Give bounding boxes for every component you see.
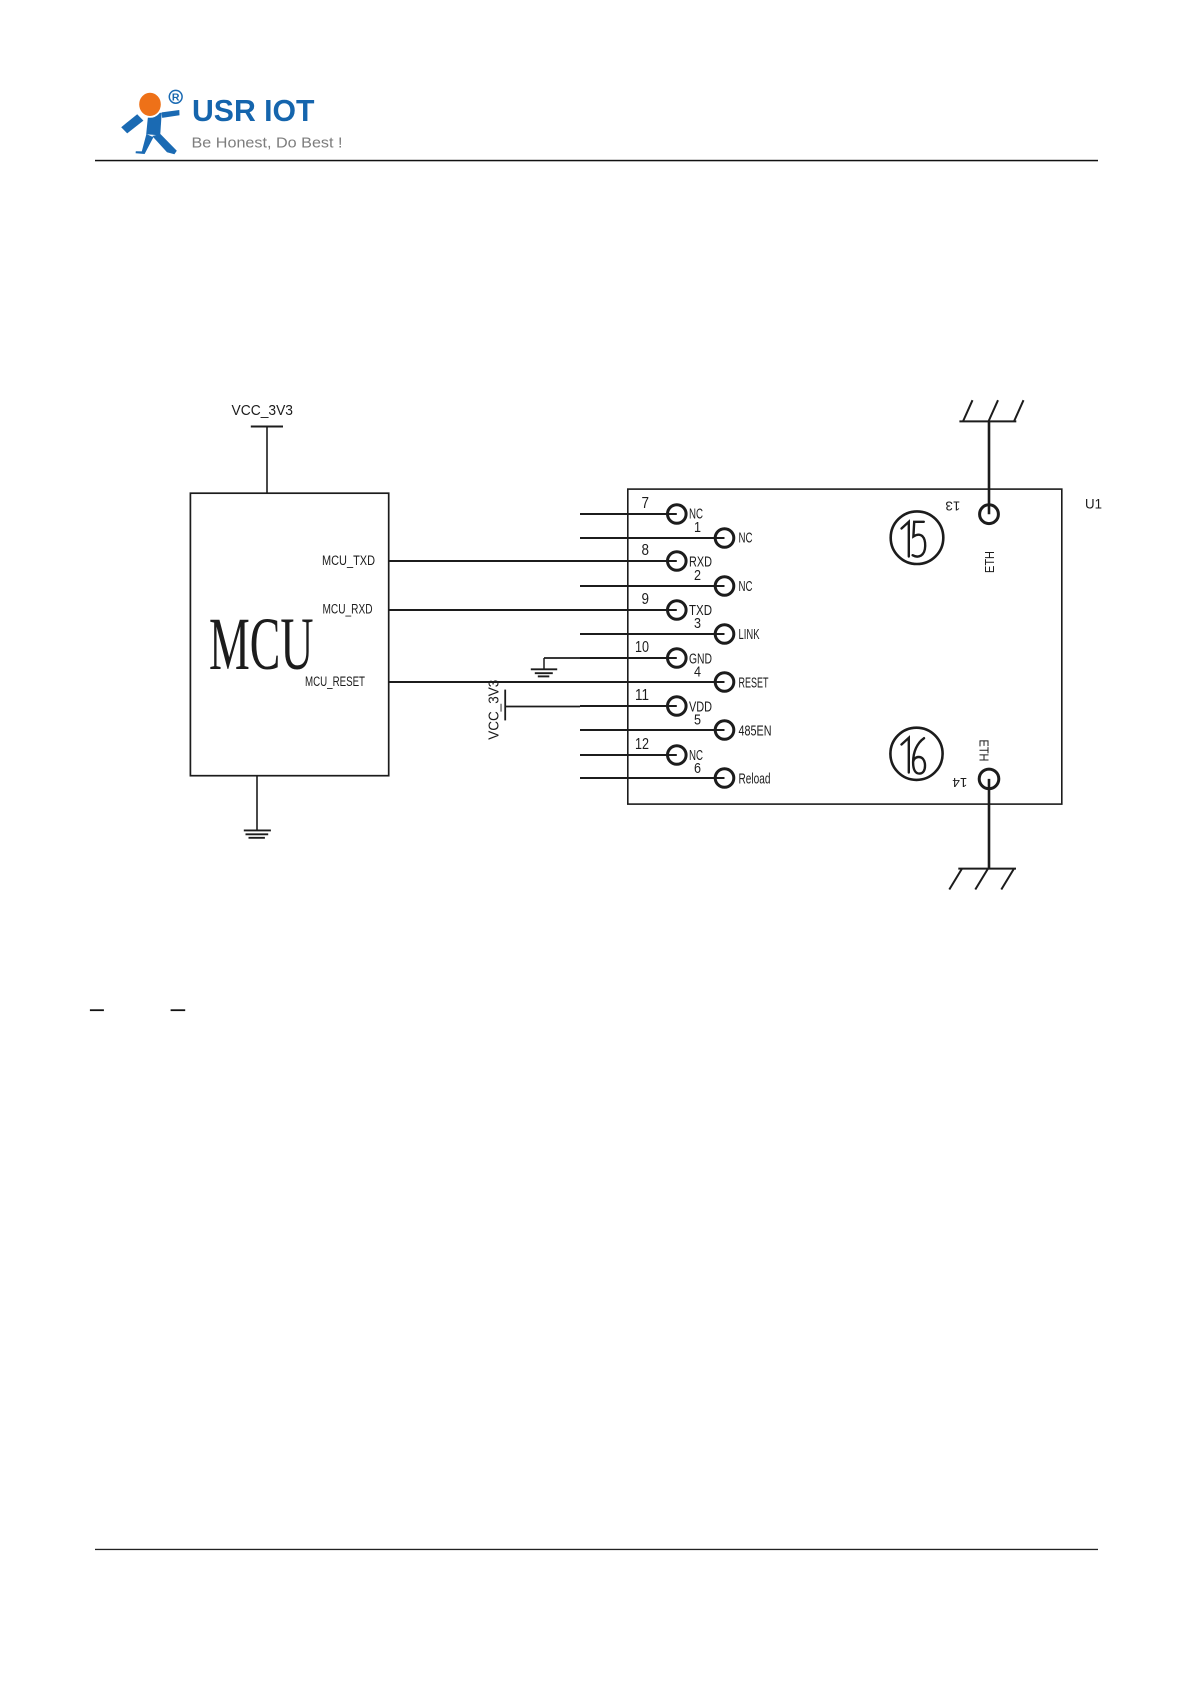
svg-text:TXD: TXD (689, 602, 712, 619)
label 16 (902, 738, 926, 774)
chassis ground bottom slash 1 (949, 869, 962, 890)
logo man left arm (121, 114, 143, 133)
svg-text:VCC_3V3: VCC_3V3 (232, 402, 294, 419)
wire MCU_RESET to U1 pin 4 (389, 681, 725, 683)
svg-text:13: 13 (945, 498, 960, 513)
logo man right leg (152, 134, 177, 154)
svg-text:11: 11 (635, 687, 649, 704)
dash mark left (90, 1009, 104, 1011)
power symbol VCC_3V3 (vertical, at VDD pin) (504, 690, 506, 721)
wire chassis ground to pin 13 (988, 421, 991, 514)
wire MCU_TXD to U1 pin 8 (389, 560, 677, 562)
wire VCC_3V3 to VDD pin (505, 706, 580, 708)
pin label MCU_RESET (305, 674, 365, 689)
chassis ground bottom bar (958, 868, 1016, 870)
header rule (95, 160, 1098, 162)
svg-text:MCU: MCU (209, 603, 314, 686)
svg-text:ETH: ETH (977, 740, 992, 762)
chassis ground bottom slash 2 (975, 869, 988, 890)
pin 14 circle (979, 769, 999, 789)
svg-text:ETH: ETH (982, 551, 997, 573)
svg-text:NC: NC (689, 506, 703, 523)
chassis ground bottom slash 3 (1001, 869, 1014, 890)
MCU label (209, 603, 314, 686)
wire VCC_3V3 to MCU (266, 427, 268, 494)
svg-text:RESET: RESET (739, 674, 769, 691)
pin 7 circle (668, 505, 687, 524)
svg-text:8: 8 (642, 542, 650, 559)
svg-text:NC: NC (689, 747, 703, 764)
svg-text:R: R (172, 92, 180, 104)
pin names (689, 506, 772, 788)
dash mark right (171, 1009, 186, 1011)
svg-text:485EN: 485EN (739, 723, 772, 740)
pin 10 circle (668, 649, 687, 668)
svg-text:Be Honest, Do Best !: Be Honest, Do Best ! (192, 136, 343, 152)
svg-text:9: 9 (642, 591, 650, 608)
pin 1 stub wire (580, 537, 725, 539)
pin 3 circle (715, 625, 734, 644)
pin label MCU_TXD (322, 553, 375, 568)
svg-text:GND: GND (689, 650, 712, 667)
chassis ground top slash 2 (989, 400, 999, 421)
pin 14 ETH (bottom) (949, 769, 1016, 889)
label 15 (902, 522, 926, 557)
svg-text:MCU_RESET: MCU_RESET (305, 674, 365, 689)
svg-text:LINK: LINK (739, 626, 760, 643)
RJ45 transformer circle 16 (890, 728, 942, 780)
ground symbol near GND pin (505, 658, 677, 720)
svg-text:Reload: Reload (739, 771, 771, 788)
pin 1 circle (715, 529, 734, 548)
pin numbers (635, 495, 701, 777)
chassis ground top bar (959, 420, 1016, 422)
ground symbol below MCU (244, 830, 271, 837)
net label VCC_3V3 (top) (232, 402, 294, 419)
logo man head (138, 92, 161, 117)
svg-text:RXD: RXD (689, 553, 712, 570)
svg-text:USR IOT: USR IOT (192, 94, 315, 128)
pin 7 stub wire (580, 513, 677, 515)
svg-text:7: 7 (642, 495, 650, 512)
pins column 1 and 2 of U1 (580, 505, 734, 788)
pin 5 stub wire (580, 729, 725, 731)
ground bars (531, 668, 557, 670)
svg-text:10: 10 (635, 639, 649, 656)
pin 5 circle (715, 721, 734, 740)
logo man torso (146, 112, 162, 135)
wire MCU to ground (256, 776, 258, 830)
MCU box (190, 493, 388, 776)
logo man right arm (162, 110, 180, 118)
chassis ground top slash 1 (963, 400, 973, 421)
svg-text:MCU_RXD: MCU_RXD (323, 602, 373, 617)
pin 11 circle (668, 697, 687, 716)
registered trademark symbol (169, 90, 182, 103)
logo man left leg (136, 134, 154, 154)
chassis ground top slash 3 (1014, 400, 1024, 421)
RJ45 transformer circle 15 (891, 511, 944, 564)
wire GND pin to ground (544, 657, 580, 659)
svg-text:VDD: VDD (689, 699, 712, 716)
pin 6 stub wire (580, 777, 725, 779)
svg-text:MCU_TXD: MCU_TXD (322, 553, 375, 568)
svg-text:12: 12 (635, 736, 649, 753)
wire MCU_RXD to U1 pin 9 (389, 609, 677, 611)
svg-text:14: 14 (952, 775, 967, 790)
U1 box (628, 489, 1062, 804)
footer rule (95, 1549, 1098, 1550)
pin label MCU_RXD (323, 602, 373, 617)
pin 13 ETH (top) (959, 400, 1023, 523)
pin 12 circle (668, 746, 687, 765)
pin 9 circle (668, 601, 687, 620)
svg-text:VCC_3V3: VCC_3V3 (486, 680, 503, 740)
pin 13 circle (980, 505, 999, 524)
power symbol VCC_3V3 bar (251, 426, 283, 428)
pin 12 stub wire (580, 754, 677, 756)
pin 2 stub wire (580, 585, 725, 587)
svg-text:NC: NC (739, 578, 753, 595)
wire pin 14 to chassis ground (988, 779, 991, 869)
pin 8 circle (668, 552, 687, 571)
pin 6 circle (715, 769, 734, 788)
pin 3 stub wire (580, 633, 725, 635)
svg-text:U1: U1 (1085, 496, 1102, 512)
pin 4 circle (715, 673, 734, 692)
svg-text:NC: NC (739, 530, 753, 547)
pin 2 circle (715, 577, 734, 596)
